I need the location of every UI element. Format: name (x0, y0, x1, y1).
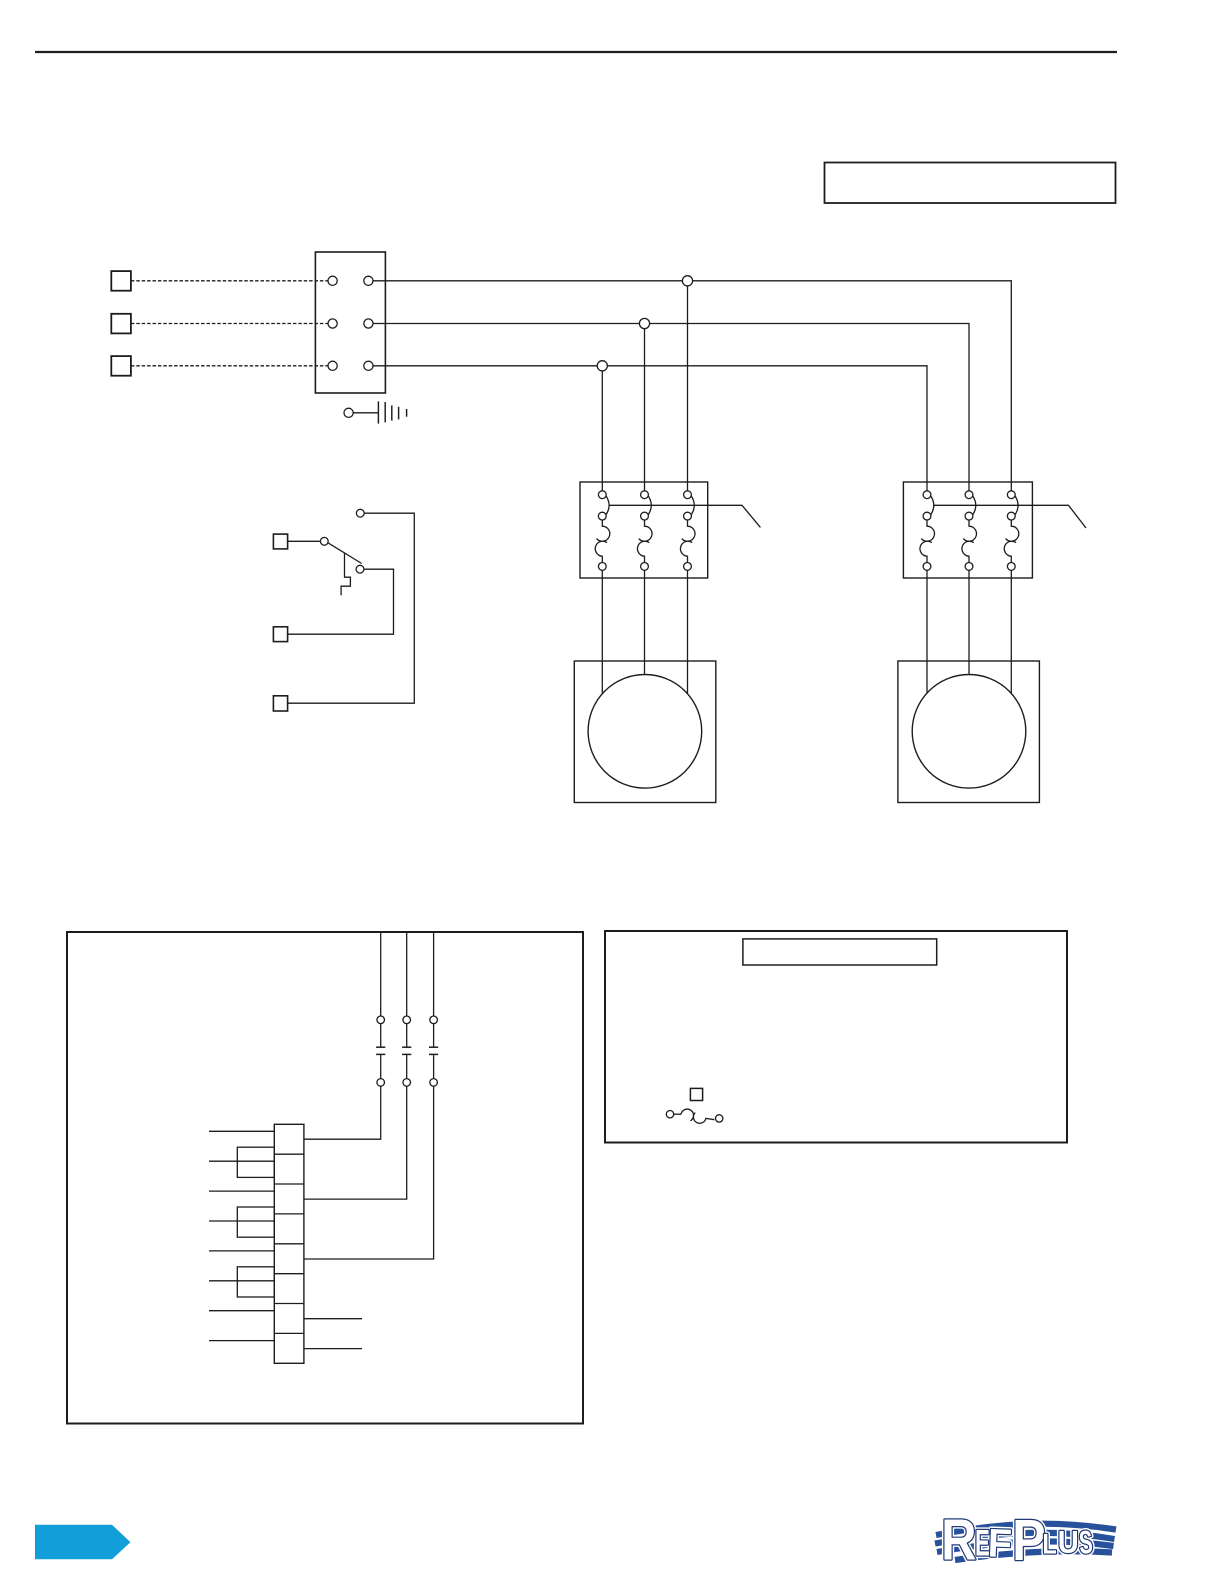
blue arrow tag (35, 1525, 131, 1560)
header rule (35, 51, 1117, 53)
wire M2 lead 3 (1010, 570, 1012, 693)
feeder 2 wire upper (406, 932, 408, 1047)
wire drop to K1 pole 1 (601, 366, 603, 491)
K1 pole 1 mid terminal circle (598, 512, 606, 520)
feeder 3 wire upper (433, 932, 435, 1047)
K2 pole 1 bottom terminal circle (923, 563, 931, 571)
contactor K2 box (903, 482, 1032, 578)
wire drop to K1 pole 3 (687, 281, 689, 491)
supply terminal L3 (111, 356, 131, 376)
title box (empty) (825, 163, 1116, 204)
wire M1 lead 3 (687, 570, 689, 693)
feeder 2 upper terminal circle (403, 1016, 411, 1024)
node junction C (597, 361, 607, 371)
switch actuator linkage (341, 553, 350, 595)
terminal block TB1 (315, 252, 385, 393)
dashed lead wire L1 (131, 280, 329, 282)
strip output stub row 8 (304, 1348, 362, 1350)
switch top terminal circle (356, 509, 364, 517)
wire M1 lead 2 (644, 570, 646, 674)
motor M2 box (898, 661, 1040, 803)
feeder 3 upper terminal circle (430, 1016, 438, 1024)
K2 pole 3 top terminal circle (1007, 491, 1015, 499)
node junction A (682, 276, 692, 286)
terminal strip divider 3 (274, 1213, 304, 1215)
switch terminal S1 (273, 534, 287, 549)
K1 pole 3 contact blade arc (691, 495, 694, 515)
K1 pole 3 bottom terminal circle (684, 563, 692, 571)
feeder 1 fuse plate top (376, 1046, 385, 1048)
terminal strip block (274, 1124, 304, 1363)
K1 pole 1 bottom terminal circle (598, 563, 606, 571)
feeder 2 lower terminal circle (403, 1079, 411, 1087)
K1 pole 1 overload heater element (595, 520, 610, 563)
wire phase A horizontal (373, 281, 1011, 491)
supply terminal L1 (111, 271, 131, 291)
ground lead wire (353, 412, 378, 414)
K2 pole 2 bottom terminal circle (965, 563, 973, 571)
legend title box (empty) (743, 939, 937, 965)
RefPlus logo text (945, 1519, 1093, 1560)
feeder 1 fuse plate bottom (376, 1053, 385, 1055)
strip input wire row 3 (209, 1190, 274, 1192)
strip output stub row 7 (304, 1318, 362, 1320)
terminal strip divider 6 (274, 1303, 304, 1305)
wire M2 lead 1 (926, 570, 928, 693)
K1 pole 3 mid terminal circle (684, 512, 692, 520)
feeder 1 wire lower (304, 1054, 381, 1139)
strip input wire row 5 (209, 1250, 274, 1252)
feeder 3 fuse plate bottom (429, 1053, 438, 1055)
switch blade (328, 543, 362, 564)
RefPlus logo stripes (935, 1524, 1116, 1560)
terminal pin left row y=280.8 (328, 276, 337, 285)
K1 pole 2 bottom terminal circle (641, 563, 649, 571)
feeder 1 lower terminal circle (377, 1079, 385, 1087)
wire switch top terminal to S3 (288, 513, 415, 703)
supply terminal L2 (111, 314, 131, 334)
contactor K2 linkage line (934, 505, 1086, 528)
K1 pole 3 overload heater element (680, 520, 695, 563)
switch pivot circle (320, 537, 328, 545)
jumper bracket row 6 (237, 1267, 274, 1297)
contactor K1 box (580, 482, 708, 578)
feeder 3 wire lower (304, 1054, 434, 1259)
switch terminal S2 (273, 627, 287, 642)
K2 pole 3 overload heater element (1004, 520, 1019, 563)
dashed lead wire L3 (131, 365, 329, 367)
wire M2 lead 2 (968, 570, 970, 674)
K1 pole 3 top terminal circle (684, 491, 692, 499)
feeder 2 fuse plate top (402, 1046, 411, 1048)
K2 pole 2 top terminal circle (965, 491, 973, 499)
strip input wire row 1 (209, 1130, 274, 1132)
switch NO contact circle (356, 565, 364, 573)
motor M1 circle (588, 675, 702, 789)
motor M1 box (574, 661, 716, 803)
node junction B (639, 318, 649, 328)
switch terminal S3 (273, 696, 287, 711)
terminal strip divider 1 (274, 1153, 304, 1155)
K1 pole 2 mid terminal circle (641, 512, 649, 520)
K2 pole 2 overload heater element (962, 520, 977, 563)
wire S1 to switch common (288, 540, 325, 542)
K2 pole 1 overload heater element (920, 520, 935, 563)
legend overload right circle (716, 1115, 723, 1122)
wire M1 lead 1 (601, 570, 603, 693)
ground (earth) symbol (378, 401, 406, 423)
terminal strip divider 2 (274, 1183, 304, 1185)
ground terminal circle (344, 408, 353, 417)
legend square symbol (690, 1088, 702, 1100)
strip input wire row 7 (209, 1310, 274, 1312)
strip input wire row 8 (209, 1340, 274, 1342)
jumper bracket row 2 (237, 1147, 274, 1177)
K2 pole 3 contact blade arc (1015, 495, 1018, 515)
legend overload left circle (666, 1111, 673, 1118)
K2 pole 2 contact blade arc (972, 495, 975, 515)
wire drop to K1 pole 2 (644, 324, 646, 491)
feeder 3 fuse plate top (429, 1046, 438, 1048)
K1 pole 2 contact blade arc (648, 495, 651, 515)
feeder 1 wire upper (380, 932, 382, 1047)
terminal pin right row y=323.5 (364, 319, 373, 328)
feeder 2 wire lower (304, 1054, 407, 1199)
terminal strip divider 7 (274, 1332, 304, 1334)
K1 pole 2 top terminal circle (641, 491, 649, 499)
K2 pole 3 bottom terminal circle (1007, 563, 1015, 571)
feeder 3 lower terminal circle (430, 1079, 438, 1087)
wire phase C horizontal (373, 366, 927, 491)
K2 pole 3 mid terminal circle (1007, 512, 1015, 520)
feeder 2 fuse plate bottom (402, 1053, 411, 1055)
terminal strip divider 4 (274, 1243, 304, 1245)
control panel box (67, 932, 583, 1424)
legend overload element (674, 1113, 681, 1115)
K2 pole 1 mid terminal circle (923, 512, 931, 520)
strip input wire row 4 (209, 1220, 274, 1222)
motor M2 circle (912, 675, 1026, 789)
feeder 1 upper terminal circle (377, 1016, 385, 1024)
dashed lead wire L2 (131, 323, 329, 325)
jumper bracket row 4 (237, 1207, 274, 1237)
wire switch NO contact to S2 (288, 569, 394, 634)
terminal strip divider 5 (274, 1273, 304, 1275)
legend panel box (605, 931, 1067, 1143)
K1 pole 1 contact blade arc (606, 495, 609, 515)
terminal pin left row y=323.5 (328, 319, 337, 328)
terminal pin right row y=280.8 (364, 276, 373, 285)
K2 pole 1 top terminal circle (923, 491, 931, 499)
contactor K1 linkage line (609, 505, 760, 527)
terminal pin right row y=365.8 (364, 361, 373, 370)
K1 pole 2 overload heater element (637, 520, 652, 563)
K2 pole 1 contact blade arc (930, 495, 933, 515)
wire phase B horizontal (373, 324, 969, 491)
strip input wire row 6 (209, 1280, 274, 1282)
terminal pin left row y=365.8 (328, 361, 337, 370)
K2 pole 2 mid terminal circle (965, 512, 973, 520)
K1 pole 1 top terminal circle (598, 491, 606, 499)
strip input wire row 2 (209, 1160, 274, 1162)
